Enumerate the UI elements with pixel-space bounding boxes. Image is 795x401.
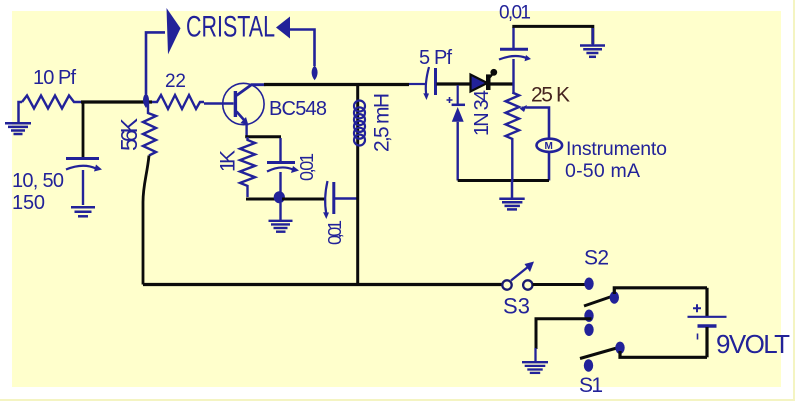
bottom rail wire [143,283,502,286]
svg-text:0-50 mA: 0-50 mA [565,160,640,182]
svg-text:150: 150 [12,192,45,214]
emitter node top wire [245,135,281,138]
svg-text:0,01: 0,01 [325,220,345,245]
capacitor 0,01 (top RF bypass) [500,48,528,51]
svg-text:0,01: 0,01 [297,153,317,181]
wire 56K down to bottom rail [143,156,149,285]
plus mark battery [693,304,701,312]
junction dot (emitter node) [274,191,285,203]
wire diode to detector node [490,82,514,85]
capacitor 0,01 (coupling, series) [325,181,327,214]
pole junction dots [584,310,593,322]
crystal left arrow [167,8,181,54]
inductor 2,5 mH [354,101,365,146]
switch S3 [502,280,511,289]
svg-text:9VOLT: 9VOLT [716,329,790,359]
svg-text:1N 34: 1N 34 [471,90,493,136]
potentiometer 25 K [506,93,520,140]
wire down to variable capacitor [82,103,85,157]
crystal right arrow [276,17,290,39]
svg-text:1K: 1K [217,150,240,172]
svg-text:M: M [545,141,553,152]
ground GND5 (below pot) [499,181,524,209]
detector bottom wire [458,179,549,182]
switch S1 [580,348,619,359]
ground GND2 (below variable capacitor) [71,207,95,216]
svg-text:Instrumento: Instrumento [566,138,667,160]
svg-text:0,01: 0,01 [499,3,531,24]
transistor Q1 BC548 [223,83,264,124]
svg-text:56K: 56K [116,117,142,151]
svg-text:22: 22 [165,71,186,92]
ground GND6 (switch common) [522,348,548,373]
ground GND1 (left of 10 Pf) [5,102,31,134]
wire to crystal left arrow [146,32,165,94]
pot bottom lead [511,139,513,181]
wire cap to ground (top) [512,26,593,44]
trimmer capacitor 0,01 (emitter bypass) [279,138,281,161]
svg-text:S1: S1 [579,374,603,397]
wire S3 to S2 [533,283,586,286]
svg-text:BC548: BC548 [269,98,327,120]
switch S2 [584,278,593,290]
wire from right arrow down [290,30,315,67]
node teardrop (crystal right pin) [312,66,318,81]
collector rail (top wire) [264,83,409,86]
variable capacitor 10,50/150 [66,159,99,206]
diode D2 (vertical, shunt) [457,85,459,104]
ground GND3 (emitter node) [269,203,293,232]
svg-text:CRISTAL: CRISTAL [186,11,275,44]
svg-text:5 Pf: 5 Pf [419,47,452,69]
svg-text:25 K: 25 K [531,84,570,107]
emitter node bottom wire [246,198,276,201]
resistor 56K [143,102,156,156]
wire 22 to base [204,102,234,104]
resistor 22 [152,95,204,109]
svg-text:S2: S2 [584,247,609,270]
svg-text:10 Pf: 10 Pf [33,67,76,89]
ground GND4 (top right) [580,28,605,57]
capacitor 5 Pf (series) [409,83,425,85]
wire emitter node to coupling cap [282,198,326,201]
tank vertical wire [356,85,359,286]
wire 5Pf to diode [437,82,472,85]
wire node A to junction [81,100,152,103]
minus mark battery [697,334,699,340]
svg-text:2,5 mH: 2,5 mH [371,93,394,152]
wiper arrow [522,107,527,109]
resistor 10 Pf (zigzag) [22,96,83,109]
node junction teardrop (crystal left pin) [143,93,149,108]
svg-text:S3: S3 [503,294,530,319]
resistor 1K [240,137,255,197]
meter M (Instrumento) [537,139,563,152]
battery B1 9VOLT [705,288,708,316]
svg-text:10, 50: 10, 50 [12,170,64,192]
plus mark [447,97,453,103]
diode D1 1N34 (horizontal) [471,75,488,92]
wire ground elbow to pole [536,319,592,349]
